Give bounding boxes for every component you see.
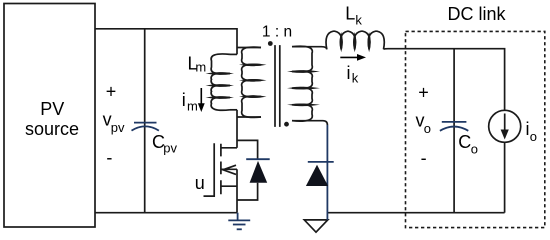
svg-text:1 : n: 1 : n: [262, 23, 292, 40]
svg-text:-: -: [106, 148, 112, 168]
svg-text:o: o: [424, 121, 431, 136]
svg-text:i: i: [347, 63, 351, 83]
svg-text:-: -: [421, 148, 427, 168]
svg-text:C: C: [458, 132, 471, 152]
svg-text:pv: pv: [163, 140, 177, 155]
svg-text:o: o: [530, 129, 537, 144]
svg-text:m: m: [187, 98, 198, 113]
svg-text:k: k: [355, 12, 362, 27]
svg-text:u: u: [195, 173, 205, 193]
svg-text:source: source: [25, 119, 79, 139]
svg-text:DC link: DC link: [447, 4, 506, 24]
svg-text:k: k: [352, 70, 359, 85]
svg-text:+: +: [418, 82, 429, 102]
svg-text:m: m: [195, 60, 206, 75]
svg-text:+: +: [106, 82, 117, 102]
svg-text:L: L: [345, 4, 355, 24]
svg-text:pv: pv: [111, 120, 125, 135]
svg-text:PV: PV: [40, 99, 64, 119]
svg-text:i: i: [182, 90, 186, 110]
svg-text:o: o: [471, 141, 478, 156]
